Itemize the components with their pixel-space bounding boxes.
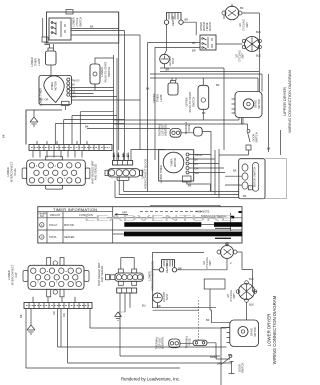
- wires from timer to trunks: [66, 88, 141, 111]
- svg-text:SWITCH: SWITCH: [255, 132, 259, 142]
- column line 2: [62, 212, 64, 243]
- svg-text:CYCLING: CYCLING: [242, 19, 246, 31]
- wire DS1: [219, 118, 249, 156]
- svg-text:BK: BK: [121, 153, 125, 157]
- staircase wire 1: [80, 112, 113, 145]
- wire ST2 down x31 ground: [30, 309, 32, 326]
- trunk x221: [221, 328, 230, 385]
- wire ST2 down x61: [60, 309, 62, 348]
- label HI-LIMIT THST: [162, 292, 169, 303]
- label UPPER PUSH-TO-START SWITCH: [185, 91, 196, 112]
- hi-limit HL2: [153, 293, 163, 303]
- MS1 terminals: [242, 164, 248, 171]
- label THERMAL FUSE: [185, 335, 192, 348]
- svg-text:BK: BK: [90, 25, 94, 29]
- wire terminal dots: [113, 155, 129, 157]
- svg-text:BK: BK: [228, 353, 232, 357]
- svg-text:SWITCH: SWITCH: [241, 363, 245, 373]
- label 1/2 CYCLING SWT: [235, 50, 245, 62]
- B1 pin dots: [36, 166, 65, 179]
- wire heater right: [183, 22, 196, 35]
- label LOWER PUSH-TO-START SWITCH: [100, 61, 111, 82]
- chart right column line: [230, 213, 232, 231]
- wire tab to lamp: [45, 42, 50, 45]
- chart bar row1 line: [201, 224, 214, 226]
- strip dividers: [34, 145, 104, 151]
- svg-text:MOTOR: MOTOR: [253, 327, 257, 337]
- timer motor circle T2: [163, 152, 184, 173]
- label THERMAL FUSE: [184, 121, 191, 134]
- label BK left: [2, 134, 6, 138]
- label OR: [52, 311, 56, 315]
- svg-text:BLK: BLK: [249, 303, 254, 307]
- heater H2 terminals: [159, 268, 163, 272]
- label MOTOR SWITCH: [253, 167, 257, 188]
- svg-text:BK: BK: [85, 125, 89, 129]
- motor switch box MS1: [239, 159, 265, 199]
- svg-text:LOWER: LOWER: [100, 67, 104, 77]
- svg-text:DRIVE: DRIVE: [250, 328, 254, 336]
- B2 bottom tabs: [47, 289, 51, 297]
- wire P1 top: [95, 58, 114, 90]
- trunk v x215: [214, 150, 216, 195]
- svg-text:1/2: 1/2: [238, 23, 242, 27]
- trunk v x211: [210, 132, 212, 192]
- row1 number: [40, 223, 44, 227]
- timer sub box: [62, 101, 70, 105]
- label 1/2 CYCLING SWT: [202, 257, 212, 269]
- svg-text:BK: BK: [216, 83, 220, 87]
- power contact box S1: [49, 18, 71, 40]
- vertical trunk v7: [113, 55, 115, 161]
- upper timer lamp L2: [168, 83, 178, 95]
- wire ST2 x90 to bus: [89, 309, 91, 329]
- svg-text:BK: BK: [19, 314, 23, 318]
- C2 cell strip below: [117, 288, 137, 293]
- svg-text:GY: GY: [72, 87, 76, 91]
- wire cycling2a to cycling2c: [237, 252, 257, 292]
- C2 top stub wires: [121, 258, 134, 270]
- svg-text:BR: BR: [185, 18, 189, 22]
- wire H2 left: [153, 269, 160, 271]
- svg-text:OR: OR: [45, 98, 49, 102]
- C2 top tabs: [118, 269, 123, 273]
- vertical trunk v8: [116, 58, 118, 161]
- LOWER-SECTION: [7, 243, 277, 385]
- staircase wire 4: [55, 124, 124, 145]
- svg-text:THST: THST: [165, 293, 169, 300]
- svg-text:FUSE: FUSE: [188, 338, 192, 345]
- svg-text:SWITCH: SWITCH: [192, 97, 196, 107]
- door switch DS1: [246, 129, 251, 150]
- interconnect block B2: [28, 265, 84, 289]
- enclosure left wall: [26, 110, 62, 145]
- UPPER-SECTION: [2, 10, 166, 192]
- svg-text:BR: BR: [192, 49, 196, 53]
- wire y128.5: [87, 128, 170, 130]
- svg-text:SWT: SWT: [241, 53, 245, 59]
- C1 end tabs: [105, 170, 108, 175]
- timer motor circle T1: [44, 76, 64, 103]
- T2 sub box: [183, 176, 192, 182]
- vertical trunk v3: [124, 31, 126, 161]
- ST2 dividers: [29, 303, 88, 309]
- B1 pin circles: [29, 163, 80, 183]
- ground G1: [30, 110, 38, 126]
- svg-text:BU: BU: [112, 153, 116, 157]
- svg-text:BK: BK: [192, 41, 196, 45]
- subheader row line: [38, 217, 242, 219]
- connector C2 body: [115, 273, 143, 281]
- B2 left tab: [23, 271, 28, 282]
- label DOOR SWITCH: [252, 132, 259, 142]
- wire pts1 down: [94, 84, 96, 88]
- relay box K1: [200, 35, 216, 50]
- svg-text:LOWER TIMER: LOWER TIMER: [39, 88, 43, 106]
- label WHT-SEALED WIRE: [91, 160, 98, 184]
- B2 top circle: [53, 261, 57, 265]
- row2 number: [40, 235, 44, 239]
- C2 bottom tabs: [118, 281, 123, 285]
- wire ST2 down x67.5: [67, 309, 69, 364]
- label DOOR SWITCH: [238, 363, 245, 373]
- chart row2 lead line: [113, 233, 124, 235]
- svg-text:FUSE: FUSE: [187, 124, 191, 131]
- push-to-start P2: [198, 85, 209, 109]
- svg-text:SWITCH: SWITCH: [79, 17, 83, 27]
- strip micro text: [31, 147, 110, 149]
- svg-text:TM-PL: TM-PL: [49, 235, 57, 239]
- thermal fuse TF1: [194, 127, 203, 136]
- svg-text:CAP: CAP: [14, 272, 18, 278]
- connector C1 wires down: [114, 153, 128, 161]
- vertical trunk v1: [118, 12, 120, 150]
- svg-text:MOTOR SWITCH: MOTOR SWITCH: [253, 167, 257, 188]
- svg-text:INTERCONNECT: INTERCONNECT: [10, 161, 14, 182]
- staircase wire 3: [64, 120, 125, 145]
- ST2 micro text: [26, 305, 90, 307]
- row separator: [38, 229, 242, 231]
- svg-text:OR: OR: [52, 311, 56, 315]
- wire bus y307.7: [153, 303, 217, 308]
- B2 pin dots: [38, 271, 76, 283]
- lamp L1 LOWER TIMER LAMP: [46, 51, 57, 65]
- B2 bottom circle: [53, 290, 57, 294]
- svg-text:BK: BK: [243, 194, 247, 198]
- right boundary lines: [269, 74, 281, 155]
- UPPER-RIGHT-SECTION: [85, 4, 292, 207]
- wires M1 down: [114, 118, 244, 125]
- harness strip ST1: [29, 145, 112, 151]
- heater H1 terminals: [164, 20, 168, 24]
- C2 left tabs: [106, 275, 110, 280]
- label LOWER CYCLE SWITCH: [72, 17, 83, 27]
- svg-text:MOTOR: MOTOR: [64, 223, 74, 227]
- title LOWER DRYER WIRING CONNECTION DIAGRAM: [267, 295, 277, 364]
- bottom bus y347: [58, 346, 227, 348]
- svg-text:PUSH-TO-START: PUSH-TO-START: [104, 61, 108, 82]
- label LOWER INTERCONNECT PLUG: [6, 161, 17, 182]
- svg-text:DRIVE: DRIVE: [254, 100, 258, 108]
- tick labels above strip: [37, 141, 87, 145]
- label THERMAL CUT-OUT (HEATER): [158, 123, 168, 136]
- bypass wire L3: [115, 181, 239, 198]
- MS1 capsule: [253, 163, 259, 192]
- wire lamp to timer: [50, 65, 52, 76]
- label UPPER MOTOR RELAY: [199, 22, 212, 32]
- wire BK from S1: [71, 29, 125, 31]
- bypass wire L1: [124, 181, 239, 192]
- chart bar row1 right segment: [214, 222, 242, 227]
- svg-text:CIRCUIT: CIRCUIT: [50, 213, 61, 217]
- B1 bottom tab: [45, 185, 62, 189]
- svg-text:BR: BR: [214, 355, 218, 359]
- label LOWER INTERCONNECT BLOCK: [148, 261, 155, 291]
- svg-text:SWITCH: SWITCH: [107, 67, 111, 77]
- label TIMER MOTOR: [170, 158, 178, 168]
- label LOWER TIMER: [39, 88, 43, 106]
- B2 top tabs: [47, 258, 51, 266]
- svg-text:BK: BK: [233, 169, 237, 173]
- wire CS2 left to relay: [216, 43, 242, 45]
- ground G2: [27, 325, 35, 334]
- motor switch outer boundary: [239, 159, 287, 199]
- M2 pins: [227, 328, 230, 343]
- B1 top tab: [45, 156, 62, 160]
- wire TC1-TF1: [181, 132, 211, 133]
- terminal circle: [226, 243, 229, 246]
- wire TC2 TF2: [180, 343, 230, 359]
- label UPPER INTERCONNECT BLOCK: [141, 159, 148, 189]
- svg-text:MOTOR: MOTOR: [54, 81, 58, 91]
- T2 terminals: [186, 153, 189, 156]
- svg-text:TIMER: TIMER: [50, 82, 54, 90]
- label HEATER: [171, 16, 175, 26]
- svg-text:MOTOR: MOTOR: [173, 158, 177, 168]
- wire bus y71: [160, 71, 259, 73]
- small box lower right: [204, 279, 225, 289]
- wire ST2 down x26: [26, 309, 180, 369]
- cycling switch CS1: [225, 6, 239, 20]
- wire PTS2 stubs: [202, 78, 204, 120]
- drive motor M1: [235, 92, 262, 118]
- chart row3 line: [215, 237, 231, 239]
- interconnect block B1: [27, 160, 86, 185]
- svg-text:MOTOR: MOTOR: [257, 99, 261, 109]
- S1 pins: [51, 22, 53, 24]
- bottom bus y356: [120, 355, 220, 357]
- header row line: [38, 211, 113, 213]
- contact arrows inside S1: [52, 21, 65, 37]
- bottom bus y328: [90, 327, 227, 329]
- bypass wire L2: [119, 177, 239, 195]
- wire strip feed L: [131, 150, 165, 161]
- chart header OFF arrow: [115, 213, 128, 215]
- label LOWER INTERCONNECT CAP: [7, 264, 18, 285]
- B2 to ST2 ticks: [33, 297, 75, 303]
- chart header note dashes: [140, 211, 202, 213]
- top tab notch: [66, 10, 73, 14]
- svg-text:BLK: BLK: [256, 54, 261, 58]
- label HI-LIMIT THST: [168, 56, 175, 67]
- svg-text:INTERCONNECT: INTERCONNECT: [11, 264, 15, 285]
- column line 1: [46, 212, 48, 243]
- timer2 subbox wire: [187, 182, 211, 192]
- svg-text:SWT: SWT: [245, 22, 249, 28]
- TABLE-SECTION: [38, 207, 242, 243]
- wire y74 y78: [150, 74, 262, 92]
- svg-text:TIMER: TIMER: [170, 158, 174, 166]
- svg-text:CYCLE: CYCLE: [75, 17, 79, 26]
- wire ST2 down x57.5: [57, 309, 59, 348]
- svg-text:LEADVENTURE: LEADVENTURE: [84, 213, 235, 223]
- C1 connector body: [108, 169, 140, 177]
- wire above table: [150, 205, 220, 206]
- S1 side tab: [42, 37, 48, 42]
- label SEE LOWER MOTOR SWITCH: [97, 262, 104, 286]
- outer left wire: [42, 18, 44, 37]
- timer T2 box: [159, 150, 194, 181]
- wire heater left down: [165, 24, 167, 54]
- wire CS4 bottom to motor: [246, 302, 248, 320]
- svg-text:UPPER TIMER: UPPER TIMER: [159, 165, 163, 183]
- svg-text:LAMP: LAMP: [37, 58, 41, 65]
- staircase wire 2: [72, 116, 117, 145]
- wires C2 strip down: [120, 293, 130, 356]
- svg-text:WH: WH: [116, 153, 120, 157]
- M1 pins: [232, 99, 236, 113]
- svg-text:LAMP: LAMP: [159, 94, 163, 101]
- svg-text:HEATER: HEATER: [171, 16, 175, 26]
- label LOWER TIMER LAMP: [30, 57, 41, 67]
- svg-text:BLOCK: BLOCK: [208, 22, 212, 31]
- title UPPER DRYER WIRING CONNECTION DIAGRAM: [282, 70, 292, 133]
- wire CS1 to right trunk: [224, 13, 260, 92]
- svg-text:TIMER INFORMATION: TIMER INFORMATION: [53, 207, 97, 212]
- lower enclosure left: [153, 252, 205, 307]
- wire bus y310.2: [153, 309, 199, 311]
- svg-text:BK: BK: [72, 83, 76, 87]
- wire: [71, 34, 140, 36]
- svg-text:INTERCONNECT BLOCK: INTERCONNECT BLOCK: [144, 159, 148, 189]
- svg-text:BK: BK: [206, 318, 210, 322]
- svg-text:TIMER: TIMER: [34, 58, 38, 66]
- drive motor M2: [230, 320, 259, 347]
- label HEATER: [165, 263, 169, 273]
- wires into MS1: [225, 176, 242, 185]
- svg-text:BR: BR: [217, 362, 221, 366]
- svg-text:OR: OR: [72, 91, 76, 95]
- svg-text:BK: BK: [146, 87, 150, 91]
- B2 right tab: [84, 271, 89, 282]
- svg-text:NO.: NO.: [40, 214, 45, 218]
- thermal cutout TC1: [170, 129, 181, 138]
- svg-text:HEATER: HEATER: [64, 235, 74, 239]
- vertical trunk v5: [147, 43, 149, 192]
- thermal cutout TC2: [169, 339, 180, 348]
- label BK: [19, 314, 23, 318]
- label RD: [62, 313, 66, 317]
- chart bar row2: [124, 232, 242, 237]
- svg-text:AND SEALED: AND SEALED: [100, 266, 104, 283]
- thermal fuse TF2: [193, 340, 207, 345]
- B2 pin circles: [31, 268, 82, 287]
- label THERMAL CUT-OUT (HEATER): [155, 336, 165, 349]
- svg-text:RD: RD: [62, 313, 66, 317]
- C1 cell strip: [113, 161, 133, 166]
- column line chart: [112, 207, 114, 243]
- svg-text:LOWER DRYER: LOWER DRYER: [267, 314, 272, 347]
- harness strip ST2: [24, 303, 92, 309]
- wire CS3 stem down: [226, 259, 228, 270]
- hi-limit thermostat HL1: [160, 54, 170, 64]
- door switch DS2: [229, 355, 232, 358]
- chart mid line: [215, 227, 231, 229]
- svg-text:TM-GY: TM-GY: [49, 223, 58, 227]
- svg-text:PUSH-TO-START: PUSH-TO-START: [188, 91, 192, 112]
- C1 bottom tab: [117, 177, 129, 181]
- svg-text:LOWER: LOWER: [72, 17, 76, 27]
- svg-text:LOWER: LOWER: [6, 167, 10, 177]
- svg-text:SWT: SWT: [232, 293, 236, 299]
- MS1 terminal tab: [248, 186, 253, 190]
- trunk v x219: [218, 149, 220, 198]
- svg-text:BK: BK: [202, 111, 206, 115]
- timer terminals: [67, 78, 70, 81]
- vertical trunk v4: [139, 35, 141, 150]
- chart bar row1: [124, 222, 201, 227]
- wires relay left: [148, 43, 201, 48]
- svg-text:BU: BU: [142, 304, 146, 308]
- svg-text:HEATER: HEATER: [165, 263, 169, 273]
- label DRIVE MOTOR: [254, 99, 262, 109]
- label 1/2 CYCLING SWT: [226, 290, 236, 302]
- strip to block ticks: [33, 151, 82, 158]
- dashed trunk x198.7: [198, 300, 200, 340]
- label UPPER TIMER LAMP: [152, 93, 163, 102]
- bottom bus y363: [68, 362, 232, 364]
- chart header dot: [239, 211, 242, 213]
- svg-text:UPPER: UPPER: [185, 97, 189, 106]
- label TIMER MOTOR: [50, 81, 58, 91]
- svg-text:LOWER: LOWER: [7, 270, 11, 280]
- push-to-start switch P1: [90, 64, 100, 84]
- svg-text:(HEATER): (HEATER): [164, 124, 168, 136]
- table outer frame: [38, 207, 242, 243]
- svg-text:PLUG: PLUG: [13, 168, 17, 175]
- B1 left tab: [22, 168, 27, 179]
- timer T1 box: [39, 76, 72, 105]
- cycling switch CS3: [221, 246, 234, 259]
- heater H2 coil: [162, 260, 175, 268]
- enclosure box top-left: [47, 12, 119, 43]
- heater H1 coil: [167, 13, 182, 21]
- svg-text:WIRING CONNECTION DIAGRAM: WIRING CONNECTION DIAGRAM: [272, 295, 277, 364]
- svg-text:BK: BK: [188, 184, 192, 188]
- svg-text:BK: BK: [2, 134, 6, 138]
- svg-text:AND SEALED: AND SEALED: [94, 164, 98, 181]
- wire bus y68: [160, 64, 224, 150]
- svg-text:BK: BK: [267, 147, 271, 151]
- cycling switch CS4: [239, 284, 255, 300]
- svg-text:BLK: BLK: [256, 30, 261, 34]
- svg-text:THST: THST: [171, 57, 175, 64]
- label UPPER TIMER: [159, 165, 163, 183]
- svg-text:Rendered by Leadventure, Inc.: Rendered by Leadventure, Inc.: [121, 377, 180, 382]
- ground G3 dashed: [118, 311, 125, 313]
- wires T2 to trunks: [189, 155, 225, 173]
- svg-text:LOWER: LOWER: [30, 57, 34, 67]
